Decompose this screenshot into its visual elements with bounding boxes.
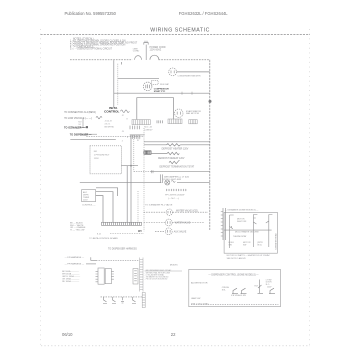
notes block — [70, 37, 138, 50]
dispenser switch S3 — [269, 288, 275, 293]
icemaker internal wires — [224, 215, 272, 249]
svg-text:AUGER MOTOR: AUGER MOTOR — [191, 282, 208, 285]
resistor R3 — [169, 160, 179, 164]
svg-text:5. (- - -) DENOTES OPTIONAL CI: 5. (- - -) DENOTES OPTIONAL CIRCUIT — [70, 48, 113, 51]
inline coil symbol — [121, 110, 130, 113]
board edge connector row: connector J1 — [132, 120, 150, 125]
svg-text:TO BETA CONTROL BOARD: TO BETA CONTROL BOARD — [89, 237, 118, 240]
wire from notes to bus — [70, 139, 116, 141]
svg-text:8: 8 — [127, 119, 128, 121]
molex feed wire — [145, 270, 182, 272]
symbols row connector — [142, 293, 145, 308]
wire rail to V2 — [151, 171, 210, 173]
freezer harness symbols row — [101, 297, 143, 304]
dashed wire to load rail — [86, 135, 144, 137]
svg-text:DEFROST HEATER 120V: DEFROST HEATER 120V — [162, 148, 189, 151]
connector id rows under BETA — [105, 121, 115, 129]
vertical wire V5 dotted — [133, 135, 135, 172]
compressor motor — [143, 82, 152, 91]
main rail H4 — [80, 182, 162, 184]
inline break ticks — [152, 170, 153, 173]
svg-text:SEE NOTE 5 ABOVE: SEE NOTE 5 ABOVE — [227, 257, 247, 260]
svg-text:TO LOW VOLTAGE (— —): TO LOW VOLTAGE (— —) — [64, 117, 92, 120]
vertical wire V4 — [130, 135, 132, 225]
svg-text:WIRING SCHEMATIC: WIRING SCHEMATIC — [150, 28, 210, 34]
comb connector on board bottom — [130, 135, 145, 139]
svg-text:J3: J3 — [122, 131, 124, 133]
svg-text:NO: NO — [94, 151, 98, 153]
optional circuit dash row — [166, 189, 187, 191]
dispenser inner dashed rule — [191, 303, 278, 305]
line bus V1b dotted — [117, 64, 119, 105]
svg-text:START PTC: START PTC — [154, 90, 166, 93]
svg-text:120V: 120V — [267, 286, 272, 288]
control board box B1 — [90, 146, 121, 174]
svg-text:CONDENSER FAN MTR: CONDENSER FAN MTR — [178, 75, 201, 78]
svg-text:LAMP 6W: LAMP 6W — [191, 297, 200, 300]
dashed harness wire — [99, 259, 140, 261]
svg-text:TO DISPENSER HARNESS: TO DISPENSER HARNESS — [108, 248, 137, 251]
harness step wire — [91, 257, 98, 260]
svg-text:— FZ HARNESS —: — FZ HARNESS — — [65, 256, 85, 259]
svg-text:TO ICEMAKER FILL VALVE: TO ICEMAKER FILL VALVE — [145, 203, 173, 206]
inline connector on H4 — [160, 174, 162, 183]
svg-text:FGHS2632L / FGHS2644L: FGHS2632L / FGHS2644L — [179, 11, 228, 16]
svg-text:FAN MOTOR: FAN MOTOR — [186, 112, 199, 115]
svg-text:FF LIGHTS 2X40W: FF LIGHTS 2X40W — [165, 195, 185, 197]
dashed branch wire — [134, 171, 151, 173]
strain relief marks — [121, 55, 158, 64]
relay contact detail — [80, 119, 98, 134]
defrost heater resistor R1 — [144, 144, 210, 146]
water valve WV1 — [144, 209, 208, 215]
svg-text:ICE SW AUG SW: ICE SW AUG SW — [231, 294, 246, 297]
connector drop stubs — [130, 126, 140, 130]
evaporator fan motor M2 — [175, 109, 183, 117]
tall connector strip C1 — [140, 258, 143, 292]
wire drop x117.6 — [96, 188, 118, 196]
svg-text:06/10: 06/10 — [62, 332, 73, 337]
wire drop x127 — [126, 166, 128, 223]
defrost thermostat resistor R2 — [151, 152, 179, 154]
wire drop x103 — [96, 196, 103, 223]
wire H2 run rail — [114, 92, 210, 94]
connector drop bar strip — [102, 222, 142, 225]
svg-text:HTR 1.5W 120VAC: HTR 1.5W 120VAC — [191, 302, 209, 305]
connector J2 — [168, 119, 182, 124]
dotted drop x138 — [137, 191, 139, 222]
terminal block mark — [86, 126, 88, 128]
dispenser switch S1 — [232, 288, 238, 293]
svg-text:MOTOR: MOTOR — [237, 218, 245, 220]
connector J3 — [189, 120, 197, 124]
svg-text:4 3 2 1: 4 3 2 1 — [105, 124, 111, 126]
junction dot — [130, 165, 132, 167]
svg-text:2: 2 — [122, 141, 123, 143]
load rail left dotted — [143, 128, 145, 231]
svg-text:RD 18GA ————: RD 18GA ———— — [62, 280, 79, 283]
svg-text:WATER VALVE: WATER VALVE — [175, 222, 191, 225]
svg-text:AUX VALVE: AUX VALVE — [174, 230, 187, 233]
svg-text:MOLD HEATER 185 OHM: MOLD HEATER 185 OHM — [235, 230, 259, 233]
defrost timer box — [82, 190, 96, 202]
svg-text:22: 22 — [171, 332, 176, 337]
connector pin ticks — [157, 120, 162, 123]
svg-text:SW: SW — [229, 245, 232, 247]
wire condenser fan to V2 — [177, 71, 210, 73]
dispenser section box — [189, 269, 281, 306]
AC line dashed rail left segment — [70, 59, 132, 61]
svg-text:AIR DAMPER (+) LT bulb: AIR DAMPER (+) LT bulb — [164, 175, 189, 178]
svg-text:MOLEX: MOLEX — [170, 264, 178, 266]
freezer light lamp L1 inline on H4 — [165, 180, 176, 185]
svg-text:115V: 115V — [83, 199, 88, 201]
icemaker edge connector — [221, 208, 226, 240]
load row R0 wire — [144, 141, 210, 143]
compressor overload box — [152, 81, 159, 85]
svg-text:1 PH 60HZ RLY: 1 PH 60HZ RLY — [94, 155, 110, 157]
svg-text:DEFROST TERMINATION TSTAT: DEFROST TERMINATION TSTAT — [160, 166, 195, 169]
dispenser relay element — [258, 280, 264, 294]
svg-text:BK WH RD: BK WH RD — [105, 127, 115, 129]
icemaker contact symbols — [230, 215, 273, 229]
main harness connector P1 half A — [96, 268, 114, 284]
molex wire list — [145, 269, 172, 280]
svg-text:SHUTOFF: SHUTOFF — [237, 221, 247, 223]
svg-text:THERMOSTAT: THERMOSTAT — [233, 235, 247, 238]
page border dotted left — [40, 29, 42, 346]
svg-text:COM 27: COM 27 — [144, 129, 153, 131]
H2 junction ticks — [182, 92, 192, 95]
AC line dashed rail right segment — [159, 59, 210, 61]
svg-text:— FF HARNESS —: — FF HARNESS — — [65, 263, 85, 266]
svg-text:WATER VALVE (ICE): WATER VALVE (ICE) — [176, 210, 198, 213]
wire H1 to compressor — [118, 77, 159, 79]
svg-text:115V: 115V — [94, 158, 99, 160]
svg-text:- PK ICE DOOR SOLENOID: - PK ICE DOOR SOLENOID — [145, 279, 168, 281]
svg-text:CONTROL: CONTROL — [104, 109, 119, 113]
svg-text:— DISPENSER CONTROL (SOME MODE: — DISPENSER CONTROL (SOME MODELS) — — [208, 274, 259, 276]
left harness note block — [70, 222, 86, 232]
water valve WV3 — [155, 228, 172, 235]
svg-text:WV: WV — [138, 230, 142, 233]
svg-text:CONTROL —: CONTROL — — [82, 204, 96, 206]
svg-text:J2: J2 — [122, 115, 124, 117]
icemaker box — [224, 212, 277, 253]
svg-text:VLV): VLV) — [257, 245, 262, 247]
dispenser right text rows — [266, 279, 272, 288]
svg-text:YL — YELLOW: YL — YELLOW — [70, 230, 84, 232]
harness connector P2 — [133, 269, 138, 284]
svg-text:CORD: CORD — [133, 51, 140, 53]
scattered pin labels — [122, 115, 128, 142]
water valve WV2 — [144, 219, 204, 226]
right bus V2 — [209, 60, 211, 231]
H4 rail right part — [177, 182, 210, 184]
svg-text:120V 60HZ: 120V 60HZ — [150, 49, 162, 51]
svg-text:TO ICEMAKER —: TO ICEMAKER — — [64, 126, 85, 129]
svg-text:DEFROST DEFEAT 120V: DEFROST DEFEAT 120V — [158, 157, 185, 160]
run capacitor wire H3 bridge — [137, 98, 174, 120]
wire list for P1 — [62, 270, 80, 283]
page border dotted right — [309, 29, 311, 346]
svg-text:SW: SW — [243, 245, 246, 247]
title underline dashed rule — [41, 33, 311, 35]
svg-text:5: 5 — [127, 137, 128, 139]
svg-text:J1 J2 J3: J1 J2 J3 — [105, 121, 112, 123]
svg-text:|— N.C. —|: |— N.C. —| — [168, 198, 180, 200]
condenser fan motor M1 — [169, 68, 177, 76]
svg-text:ICEMAKER HEAD: ICEMAKER HEAD — [274, 233, 277, 250]
page border dotted bottom — [41, 345, 310, 347]
dark hatched connector on defrost row — [144, 151, 151, 154]
junction dot on V2 — [209, 100, 212, 103]
svg-text:RUN CAP: RUN CAP — [160, 83, 170, 86]
dispenser switch S2 — [241, 288, 247, 293]
svg-text:MOTOR 8.4 WATTS — HEATER 165 W: MOTOR 8.4 WATTS — HEATER 165 W 120VAC — [227, 254, 271, 257]
power cord plug — [144, 41, 148, 60]
svg-text:— ICEMAKER (SOME MODELS) —: — ICEMAKER (SOME MODELS) — — [225, 209, 260, 212]
svg-text:N.O. J4: N.O. J4 — [144, 127, 152, 129]
wire drop x113 — [96, 192, 113, 223]
inline coil symbol 2 — [96, 116, 102, 118]
svg-text:Publication No. 5995573250: Publication No. 5995573250 — [65, 11, 117, 16]
wire from board box right — [121, 165, 138, 167]
neutral bus V1 — [113, 60, 115, 107]
svg-text:TO CONNECTOR J1-4 (BETA): TO CONNECTOR J1-4 (BETA) — [64, 111, 96, 114]
